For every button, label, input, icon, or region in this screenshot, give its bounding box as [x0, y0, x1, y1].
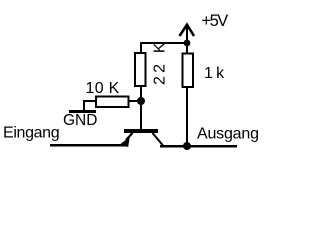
wire: 22K top lead: [140, 42, 142, 53]
wire: 22K bottom lead down to transistor base bar: [140, 86, 142, 129]
svg-text:+5V: +5V: [202, 12, 229, 30]
svg-text:22 K: 22 K: [152, 39, 169, 85]
supply +5V arrow shaft: [186, 25, 188, 43]
transistor Q1 emitter arrowhead: [120, 137, 130, 147]
resistor R3 1k body: [183, 54, 194, 88]
supply +5V arrow barbs: [180, 25, 195, 36]
transistor Q1 collector diagonal: [153, 133, 164, 146]
svg-text:Ausgang: Ausgang: [197, 126, 259, 143]
wire: top horizontal from 22K to +5V node: [140, 42, 188, 44]
wire: 1k top lead: [186, 43, 188, 53]
resistor R2 22K body: [135, 53, 146, 86]
svg-text:1 k: 1 k: [204, 65, 225, 82]
transistor Q1 base bar: [124, 129, 158, 133]
transistor Q1 emitter diagonal: [126, 133, 133, 140]
svg-text:GND: GND: [63, 112, 97, 129]
wire: GND drop: [83, 100, 85, 111]
wire: 10K left lead: [83, 100, 96, 102]
ground bar: [69, 110, 96, 113]
wire: output wire from collector to Ausgang: [160, 145, 237, 148]
wire: 1k bottom lead to output node: [186, 87, 188, 146]
node: output junction: [183, 142, 191, 150]
node: +5V junction: [184, 40, 191, 47]
svg-text:10 K: 10 K: [86, 80, 120, 97]
svg-text:Eingang: Eingang: [3, 125, 59, 142]
resistor R1 10K body: [96, 97, 129, 108]
wire: input wire from Eingang to emitter: [50, 144, 127, 147]
node: junction 10K/22K/base: [137, 97, 145, 105]
wire: 10K right lead: [129, 100, 141, 102]
